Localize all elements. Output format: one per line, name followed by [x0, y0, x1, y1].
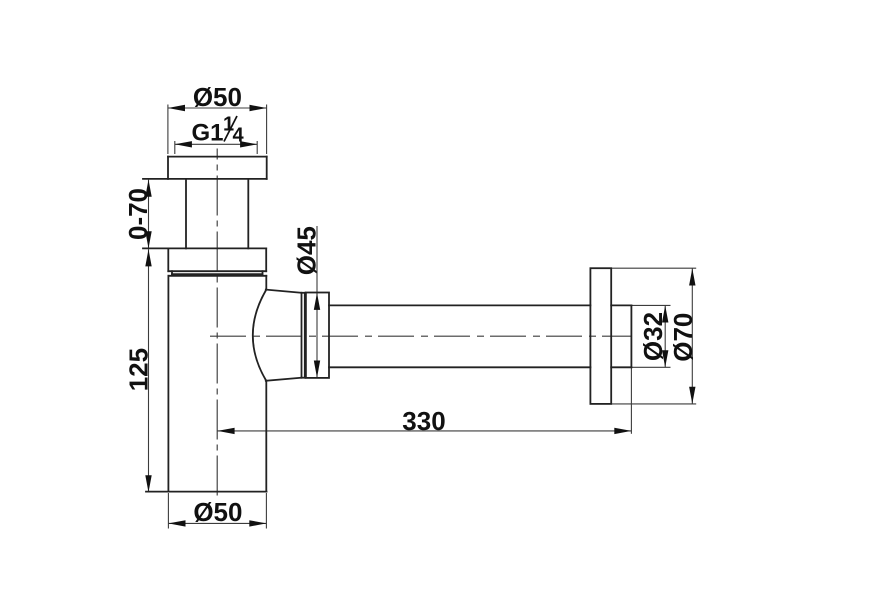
svg-text:Ø45: Ø45 [292, 226, 322, 275]
svg-text:Ø70: Ø70 [668, 313, 698, 362]
svg-text:Ø50: Ø50 [193, 82, 242, 112]
svg-text:330: 330 [402, 406, 445, 436]
svg-text:125: 125 [123, 348, 153, 391]
svg-text:0-70: 0-70 [123, 188, 153, 240]
svg-text:Ø32: Ø32 [638, 312, 668, 361]
svg-text:Ø50: Ø50 [193, 497, 242, 527]
svg-text:G1: G1 [192, 119, 224, 146]
svg-text:4: 4 [233, 125, 245, 147]
